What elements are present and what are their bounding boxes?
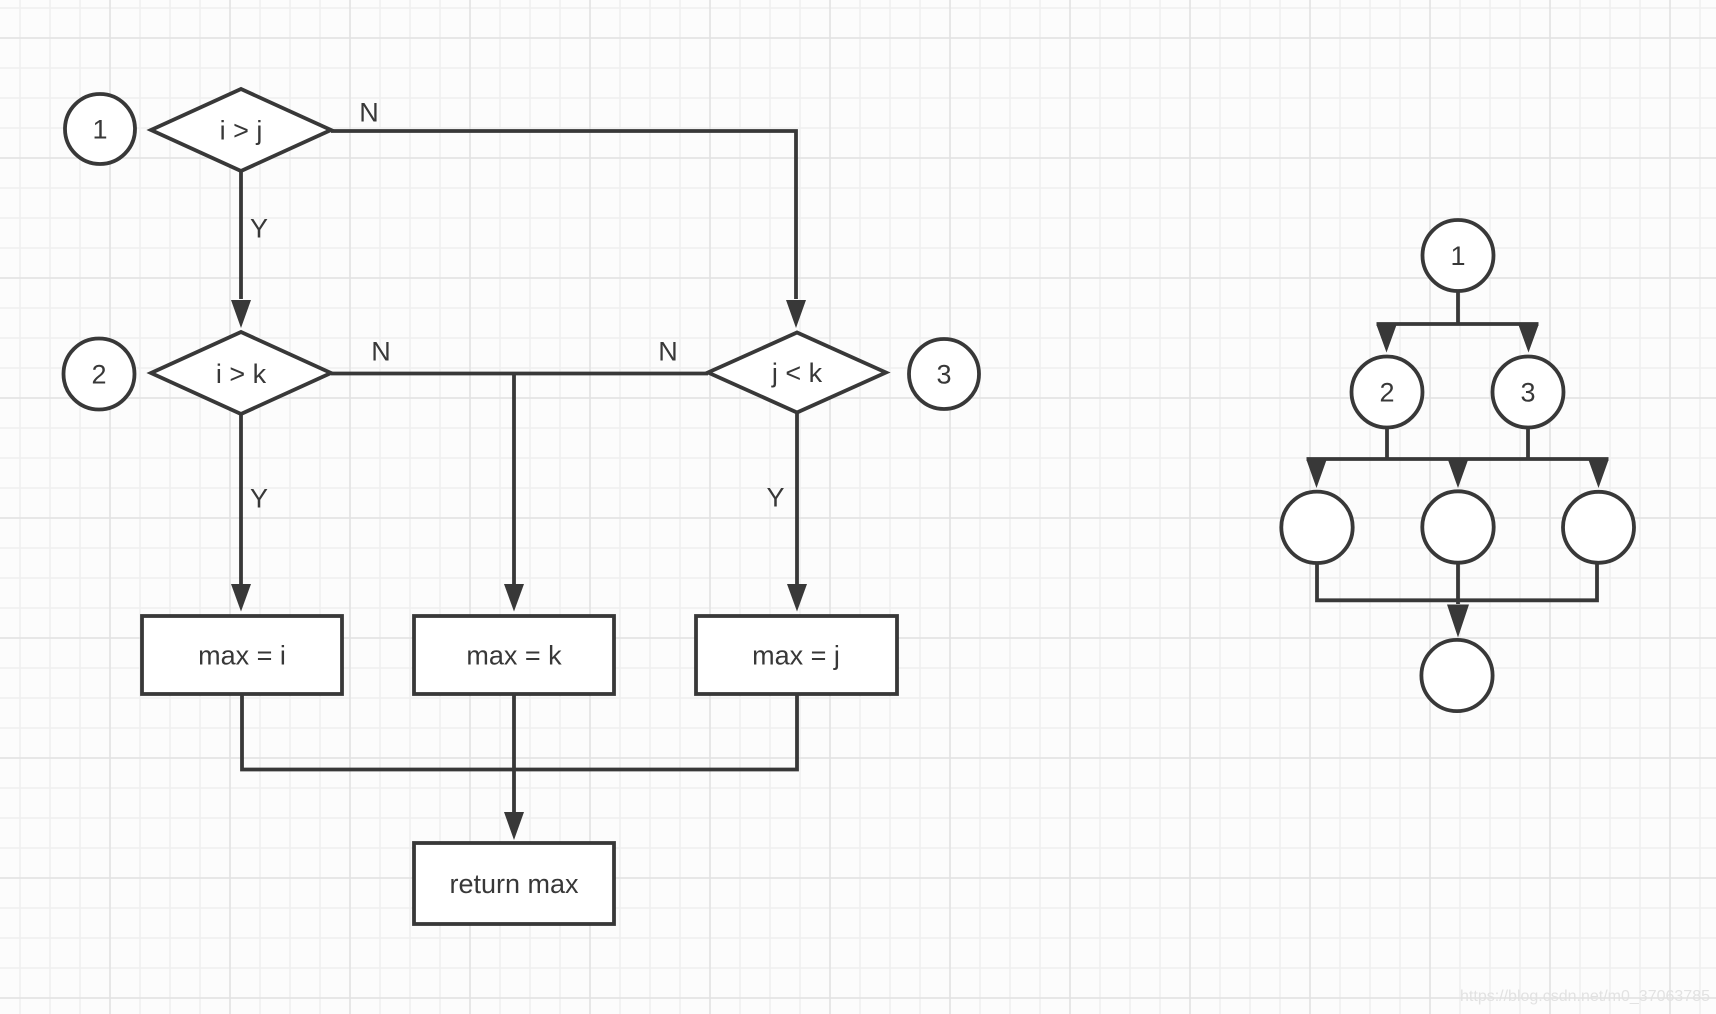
- right graph empty node middle: [1422, 491, 1493, 562]
- right graph circle 3: [1493, 357, 1564, 428]
- diamond i > j: [151, 89, 331, 171]
- wire from max=k bottom to return max: [512, 694, 516, 812]
- circle 1 (left flowchart): [65, 94, 135, 164]
- svg-text:max = k: max = k: [466, 641, 562, 671]
- svg-text:Y: Y: [250, 484, 268, 514]
- wire Y from i>j bottom to i>k top: [239, 171, 243, 299]
- svg-text:N: N: [359, 98, 379, 128]
- arrowhead into max=j: [787, 584, 807, 612]
- svg-text:return max: return max: [449, 869, 579, 899]
- wire N from i>j right to j<k top: [331, 131, 796, 299]
- arrowhead into bottom empty node: [1447, 605, 1469, 638]
- svg-text:3: 3: [1520, 378, 1535, 408]
- wire junction down to max=k: [512, 374, 516, 585]
- svg-text:N: N: [371, 337, 391, 367]
- arrowhead into left empty node: [1307, 460, 1327, 488]
- wire from max=i and max=j bottoms merging: [242, 694, 797, 770]
- svg-text:1: 1: [1450, 241, 1465, 271]
- svg-text:2: 2: [1379, 378, 1394, 408]
- right graph circle 2: [1352, 357, 1423, 428]
- right graph: stems from nodes 2,3 and fork bar: [1307, 428, 1609, 460]
- arrowhead into right empty node: [1589, 460, 1609, 488]
- right graph: stem from node 1 and fork: [1377, 291, 1539, 324]
- svg-text:max = i: max = i: [198, 641, 286, 671]
- box max = i: [142, 616, 342, 694]
- diamond i > k: [151, 332, 331, 414]
- circle 3 (left flowchart): [909, 339, 979, 409]
- svg-text:Y: Y: [766, 483, 784, 513]
- diamond j < k: [708, 333, 886, 413]
- svg-text:i > k: i > k: [216, 359, 267, 389]
- right graph: merge bar from three empty nodes: [1317, 560, 1597, 604]
- arrowhead into j<k: [786, 300, 806, 328]
- box max = k: [414, 616, 614, 694]
- arrowhead into middle empty node: [1448, 460, 1468, 488]
- arrowhead into i>k: [231, 300, 251, 328]
- svg-text:3: 3: [936, 360, 951, 390]
- right graph circle 1: [1423, 220, 1494, 291]
- arrowhead into max=k: [504, 584, 524, 612]
- arrowhead into return max: [504, 812, 524, 840]
- box return max: [414, 843, 614, 924]
- arrowhead into node 3: [1519, 325, 1539, 353]
- wire Y from j<k bottom to max=j: [795, 413, 799, 585]
- svg-text:1: 1: [92, 115, 107, 145]
- box max = j: [696, 616, 897, 694]
- circle 2 (left flowchart): [64, 339, 135, 410]
- svg-text:j < k: j < k: [771, 358, 823, 388]
- arrowhead into max=i: [231, 584, 251, 612]
- right graph empty node left: [1281, 492, 1352, 563]
- svg-text:https://blog.csdn.net/m0_37063: https://blog.csdn.net/m0_37063785: [1460, 988, 1710, 1005]
- right graph bottom empty node: [1421, 640, 1492, 711]
- svg-text:2: 2: [91, 360, 106, 390]
- arrowhead into node 2: [1377, 325, 1397, 353]
- svg-text:N: N: [658, 337, 678, 367]
- right graph empty node right: [1563, 492, 1634, 563]
- wire N from i>k right to j<k left (through junction): [331, 372, 708, 376]
- svg-text:Y: Y: [250, 214, 268, 244]
- svg-text:max = j: max = j: [752, 641, 840, 671]
- wire Y from i>k bottom to max=i: [239, 414, 243, 584]
- svg-text:i > j: i > j: [220, 116, 263, 146]
